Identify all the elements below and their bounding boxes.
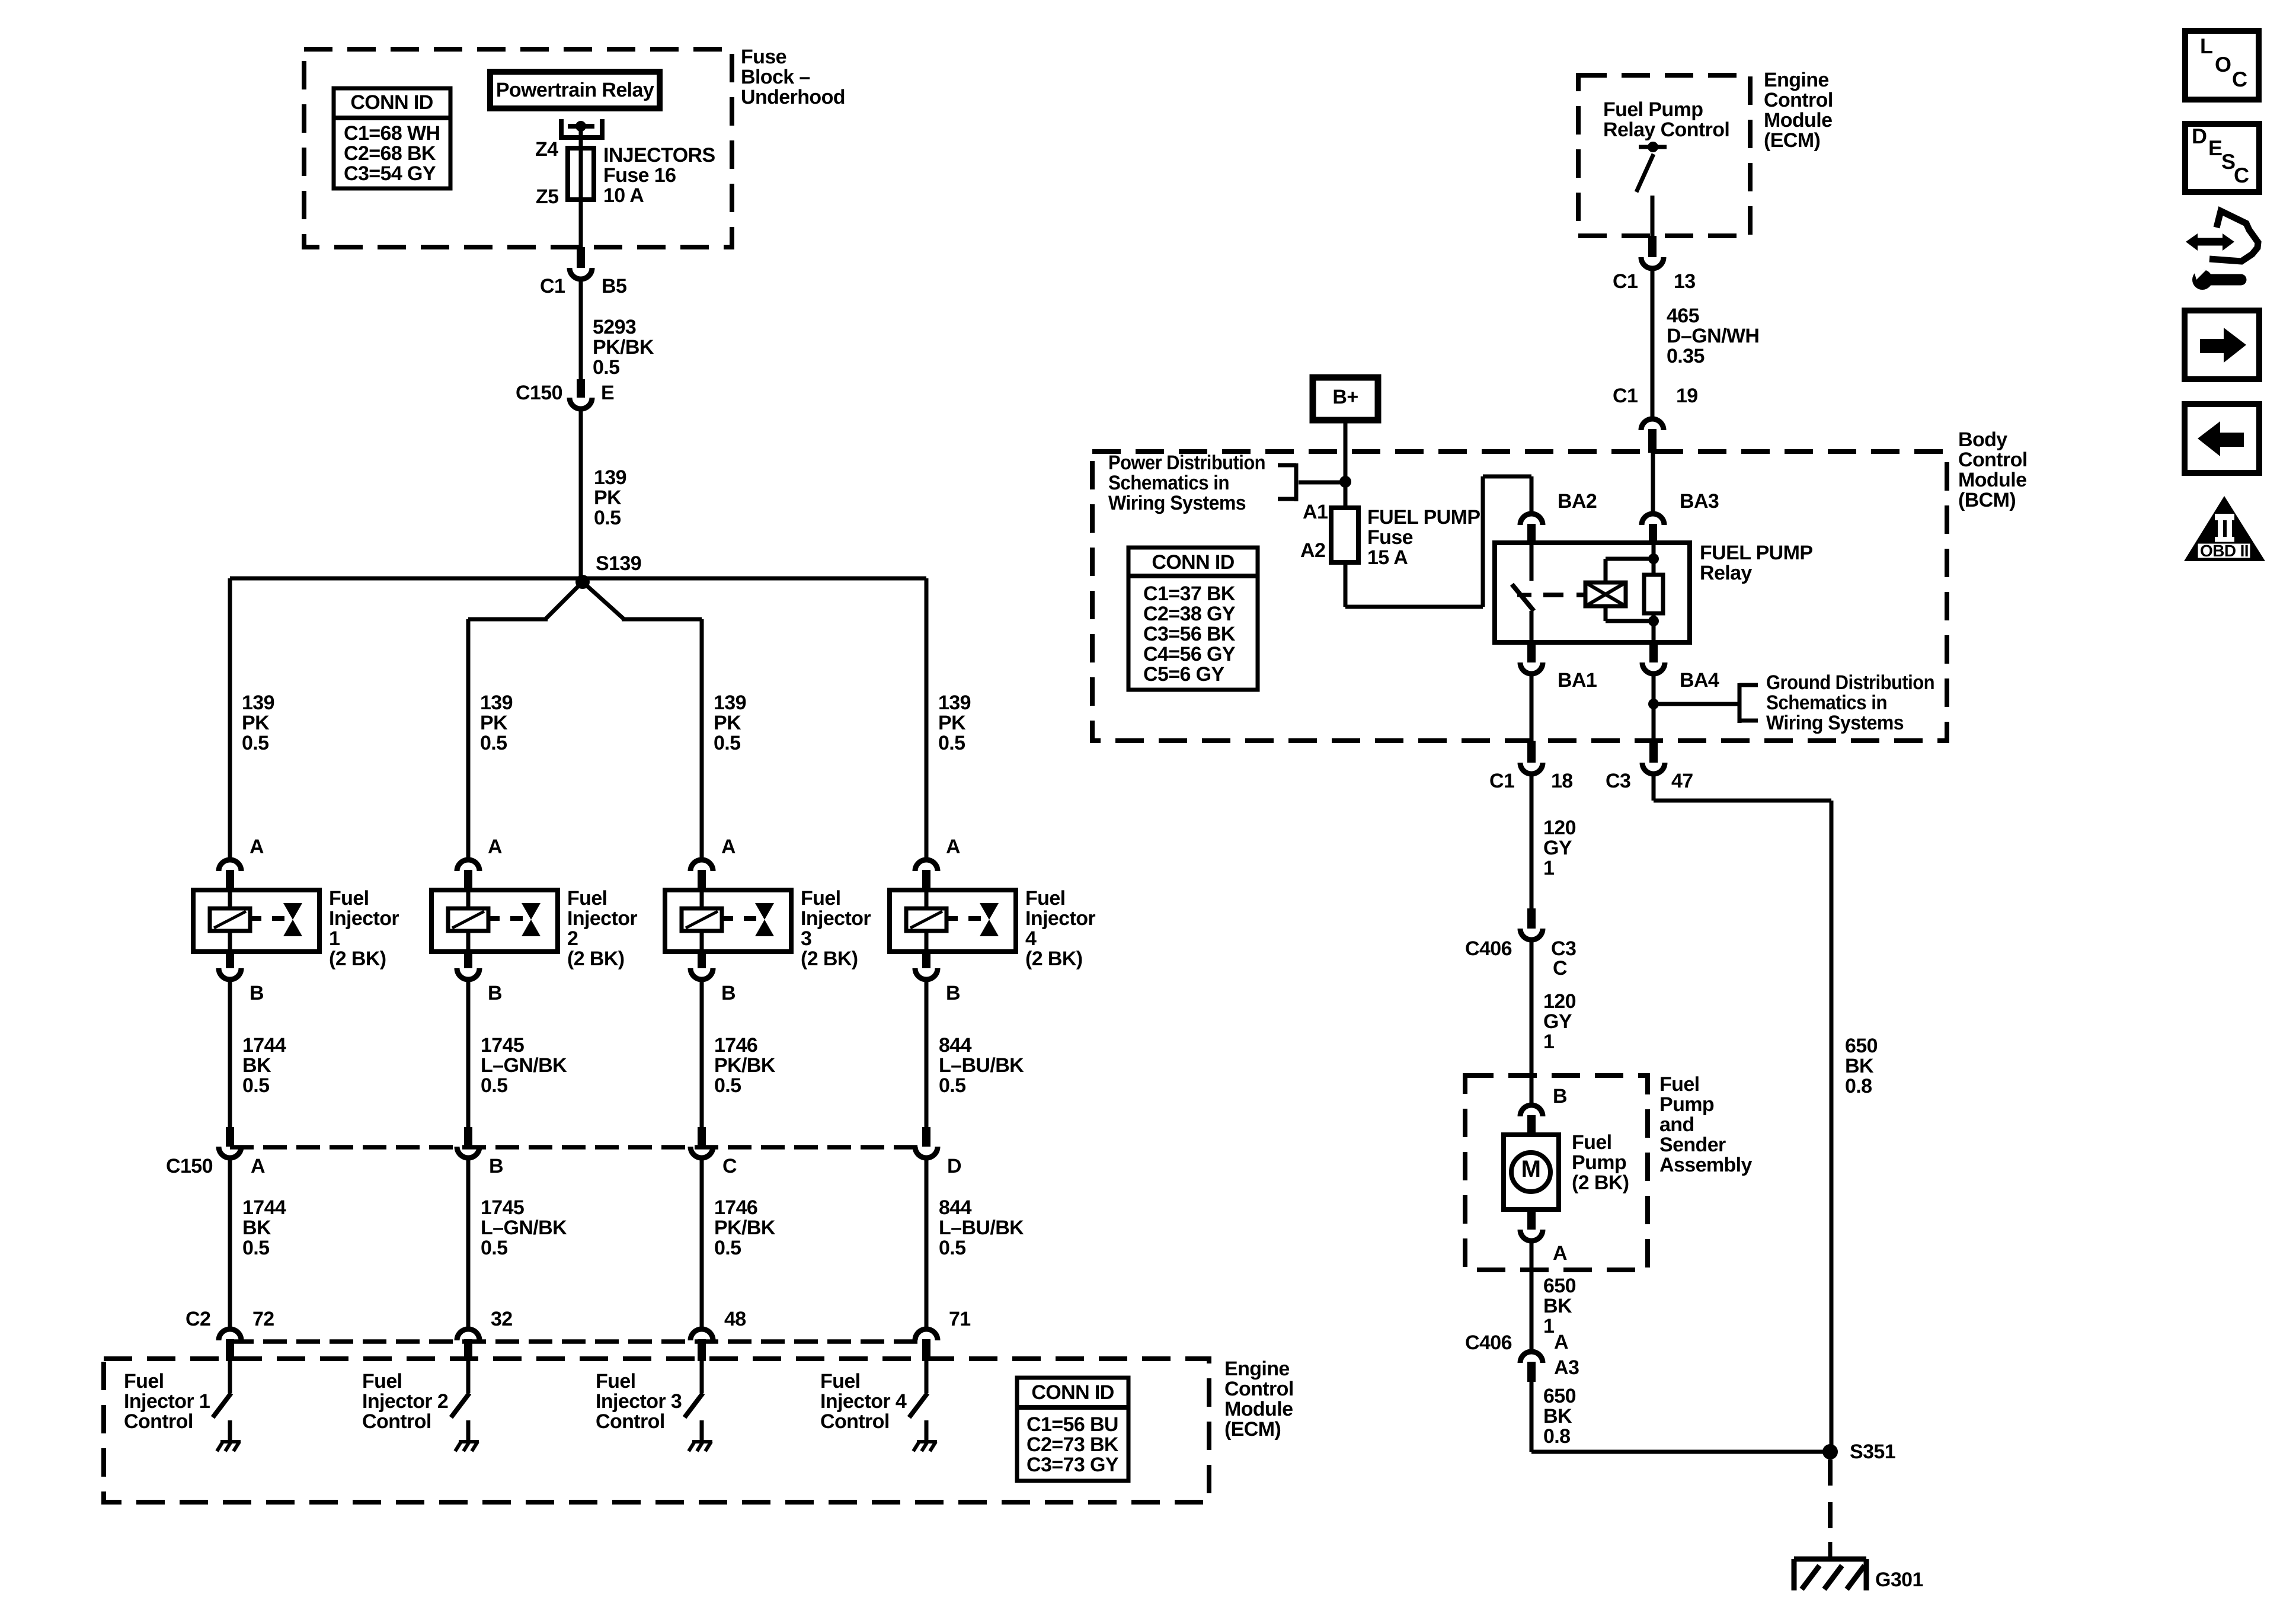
svg-text:Injector: Injector — [801, 907, 871, 930]
svg-text:C1=37 BK: C1=37 BK — [1143, 582, 1236, 605]
wire 139 PK feed injector 4 — [925, 578, 929, 859]
svg-text:C: C — [2234, 163, 2249, 187]
svg-text:0.8: 0.8 — [1543, 1425, 1570, 1448]
wire 1746 PK/BK upper — [700, 982, 704, 1128]
svg-text:A: A — [721, 836, 736, 858]
svg-text:Module: Module — [1224, 1398, 1293, 1420]
svg-text:Fuel: Fuel — [567, 887, 607, 910]
svg-text:BK: BK — [1543, 1405, 1572, 1427]
svg-text:PK: PK — [242, 712, 270, 734]
wire 139 PK feed injector 3 — [700, 619, 704, 859]
fuel pump motor — [1504, 1135, 1559, 1209]
fuse 16 INJECTORS 10A — [568, 148, 594, 200]
svg-text:C1: C1 — [540, 275, 565, 297]
CONN ID table (BCM) — [1128, 548, 1258, 690]
branch wire to injector 3 — [583, 582, 624, 619]
wire 1744 BK upper — [228, 982, 232, 1128]
svg-text:Fuel: Fuel — [820, 1370, 861, 1393]
svg-text:C2: C2 — [186, 1308, 210, 1330]
svg-text:L–BU/BK: L–BU/BK — [939, 1054, 1024, 1077]
connector C150 pin A — [226, 1127, 234, 1147]
svg-text:INJECTORS: INJECTORS — [603, 144, 715, 167]
svg-text:A: A — [1554, 1331, 1568, 1353]
svg-text:0.5: 0.5 — [481, 1074, 507, 1097]
connector C150 E — [577, 379, 585, 398]
svg-text:C1=68 WH: C1=68 WH — [344, 122, 440, 145]
B+ box — [1313, 377, 1378, 420]
svg-text:650: 650 — [1543, 1385, 1576, 1407]
ground G301 — [1794, 1557, 1866, 1562]
svg-text:0.5: 0.5 — [939, 1237, 965, 1259]
body control module (BCM) dashed box — [1092, 452, 1947, 741]
svg-text:(ECM): (ECM) — [1764, 129, 1820, 152]
wire BA1 down — [1530, 676, 1534, 742]
connector B (injector 1) — [226, 952, 234, 968]
ground (injector 1 driver) — [220, 1440, 241, 1443]
connector C2 dashed line — [230, 1339, 926, 1344]
svg-text:0.5: 0.5 — [242, 1074, 269, 1097]
svg-text:Module: Module — [1958, 469, 2026, 491]
svg-text:PK: PK — [594, 486, 622, 509]
svg-text:B: B — [250, 982, 264, 1004]
svg-text:A: A — [250, 836, 264, 858]
svg-text:Schematics in: Schematics in — [1108, 472, 1229, 494]
svg-text:E: E — [601, 382, 614, 404]
svg-text:0.35: 0.35 — [1667, 345, 1705, 367]
svg-text:Control: Control — [124, 1410, 193, 1433]
svg-text:CONN ID: CONN ID — [1031, 1381, 1114, 1404]
svg-text:Control: Control — [596, 1410, 665, 1433]
connector C150 pin B — [464, 1127, 472, 1147]
svg-text:(2 BK): (2 BK) — [1572, 1172, 1629, 1194]
svg-text:1745: 1745 — [481, 1034, 524, 1057]
ground (injector 2 driver) — [459, 1440, 479, 1443]
svg-text:Fuel: Fuel — [596, 1370, 636, 1393]
wire from relay to fuse — [579, 126, 583, 249]
svg-text:A2: A2 — [1300, 539, 1325, 562]
svg-text:Fuel: Fuel — [124, 1370, 164, 1393]
svg-text:Power Distribution: Power Distribution — [1108, 452, 1265, 474]
svg-text:0.5: 0.5 — [242, 732, 268, 754]
svg-text:Z5: Z5 — [536, 185, 558, 208]
svg-text:15 A: 15 A — [1367, 546, 1408, 569]
svg-text:A: A — [488, 836, 502, 858]
relay actuation dashes — [1543, 593, 1563, 597]
svg-text:D: D — [2192, 124, 2207, 148]
svg-text:Engine: Engine — [1764, 69, 1829, 91]
svg-text:A: A — [946, 836, 960, 858]
svg-text:C406: C406 — [1465, 937, 1512, 960]
svg-text:CONN ID: CONN ID — [350, 91, 433, 114]
svg-text:Injector 3: Injector 3 — [596, 1390, 682, 1413]
CONN ID table (fuse block) — [334, 88, 450, 188]
svg-text:1746: 1746 — [714, 1034, 757, 1057]
svg-text:E: E — [2208, 136, 2222, 160]
backward arrow icon — [2185, 404, 2259, 473]
svg-text:Pump: Pump — [1572, 1151, 1626, 1174]
svg-text:L–GN/BK: L–GN/BK — [481, 1054, 567, 1077]
svg-text:139: 139 — [938, 692, 971, 714]
svg-text:139: 139 — [242, 692, 274, 714]
relay resistor — [1644, 575, 1663, 613]
svg-text:Body: Body — [1958, 428, 2007, 451]
svg-text:18: 18 — [1551, 770, 1573, 792]
fuel pump fuse 15A — [1331, 508, 1358, 562]
svg-text:(2 BK): (2 BK) — [1025, 948, 1083, 970]
connector C1 18 — [1527, 741, 1536, 763]
svg-text:Schematics in: Schematics in — [1766, 692, 1887, 714]
fuel injector 4 — [890, 890, 1016, 952]
svg-text:C3=54 GY: C3=54 GY — [344, 162, 436, 185]
svg-text:0.5: 0.5 — [481, 1237, 507, 1259]
svg-text:48: 48 — [724, 1308, 746, 1330]
svg-text:Injector: Injector — [329, 907, 399, 930]
svg-text:Fuel: Fuel — [1572, 1131, 1612, 1154]
dashed wire to ground — [1828, 1459, 1833, 1542]
svg-text:Fuel: Fuel — [1025, 887, 1066, 910]
svg-text:0.5: 0.5 — [938, 732, 965, 754]
svg-text:0.5: 0.5 — [714, 1074, 741, 1097]
connector B (injector 2) — [464, 952, 472, 968]
svg-text:PK: PK — [938, 712, 966, 734]
svg-text:M: M — [1521, 1156, 1541, 1182]
svg-text:C1=56 BU: C1=56 BU — [1027, 1413, 1118, 1436]
svg-text:(2 BK): (2 BK) — [567, 948, 625, 970]
svg-text:Fuse: Fuse — [1367, 526, 1413, 549]
wire 120 GY lower — [1530, 942, 1534, 1103]
svg-text:PK/BK: PK/BK — [714, 1054, 776, 1077]
DESC icon — [2185, 124, 2259, 192]
wire 139 PK to splice — [579, 411, 583, 582]
fuel injector 2 — [431, 890, 558, 952]
svg-text:C150: C150 — [166, 1155, 213, 1177]
svg-text:(ECM): (ECM) — [1224, 1418, 1281, 1441]
connector B (injector 4) — [922, 952, 930, 968]
svg-text:BK: BK — [242, 1217, 271, 1239]
svg-text:Injector: Injector — [567, 907, 637, 930]
engine control module (ECM) dashed box bottom left — [104, 1359, 1209, 1502]
svg-text:120: 120 — [1543, 817, 1576, 839]
fuel injector 1 control driver — [228, 1361, 232, 1393]
svg-text:Wiring Systems: Wiring Systems — [1108, 492, 1246, 514]
svg-text:Control: Control — [362, 1410, 431, 1433]
svg-text:L–BU/BK: L–BU/BK — [939, 1217, 1024, 1239]
svg-text:C: C — [722, 1155, 737, 1177]
svg-text:BA1: BA1 — [1558, 669, 1597, 692]
wire 139 PK feed injector 1 — [228, 578, 232, 859]
OBD II icon — [2184, 496, 2265, 561]
wire 1744 BK lower — [228, 1160, 232, 1330]
svg-text:Control: Control — [1224, 1378, 1294, 1400]
wire 120 GY upper — [1530, 776, 1534, 910]
svg-text:Fuel Pump: Fuel Pump — [1603, 98, 1703, 121]
connector C1 B5 (fuse block output) — [577, 247, 585, 268]
svg-text:PK: PK — [714, 712, 741, 734]
svg-text:1: 1 — [1543, 1315, 1554, 1337]
svg-text:3: 3 — [801, 927, 811, 950]
connector BA4 — [1649, 642, 1658, 662]
svg-text:Control: Control — [820, 1410, 890, 1433]
connector B (injector 3) — [698, 952, 706, 968]
svg-text:Pump: Pump — [1659, 1093, 1714, 1116]
svg-text:L: L — [2200, 34, 2212, 58]
svg-text:0.5: 0.5 — [714, 1237, 741, 1259]
fuel pump relay box — [1495, 543, 1690, 642]
svg-text:2: 2 — [567, 927, 578, 950]
svg-text:C3: C3 — [1606, 770, 1630, 792]
svg-text:A: A — [1553, 1242, 1567, 1265]
relay contact switch — [1530, 543, 1534, 581]
svg-text:C: C — [1553, 957, 1567, 980]
ground (injector 3 driver) — [692, 1440, 712, 1443]
fuel injector 1 — [193, 890, 319, 952]
connector C1 13 — [1648, 236, 1657, 257]
svg-text:19: 19 — [1676, 385, 1698, 407]
fuel injector 2 control driver — [466, 1361, 471, 1393]
junction to ground distribution — [1648, 699, 1659, 709]
svg-text:Z4: Z4 — [535, 138, 558, 161]
svg-text:Injector: Injector — [1025, 907, 1095, 930]
svg-text:B: B — [488, 982, 502, 1004]
svg-text:GY: GY — [1543, 1010, 1572, 1033]
svg-text:O: O — [2215, 52, 2231, 76]
wire 1745 L–GN/BK upper — [466, 982, 471, 1128]
svg-text:139: 139 — [480, 692, 513, 714]
connector BA2 — [1520, 514, 1543, 525]
connector C406 C3 C — [1527, 908, 1536, 929]
svg-text:650: 650 — [1845, 1035, 1878, 1057]
svg-text:B+: B+ — [1332, 386, 1358, 408]
svg-text:D–GN/WH: D–GN/WH — [1667, 325, 1759, 347]
svg-text:S: S — [2221, 149, 2235, 174]
CONN ID table (ECM) — [1017, 1378, 1128, 1481]
svg-text:1: 1 — [1543, 857, 1554, 879]
svg-text:BA2: BA2 — [1558, 490, 1597, 513]
svg-text:139: 139 — [594, 466, 626, 489]
svg-text:C3=73 GY: C3=73 GY — [1027, 1454, 1119, 1476]
junction to power distribution — [1339, 476, 1351, 488]
svg-text:1745: 1745 — [481, 1196, 524, 1219]
svg-text:4: 4 — [1025, 927, 1037, 950]
svg-text:G301: G301 — [1875, 1569, 1923, 1591]
connector C150 pin C — [698, 1127, 706, 1147]
svg-text:OBD II: OBD II — [2200, 542, 2249, 560]
svg-text:Fuel: Fuel — [362, 1370, 402, 1393]
svg-text:Relay: Relay — [1700, 562, 1752, 584]
wire 1746 PK/BK lower — [700, 1160, 704, 1330]
svg-text:47: 47 — [1671, 770, 1693, 792]
wire 5293 PK/BK — [579, 281, 583, 379]
svg-text:Control: Control — [1958, 449, 2028, 471]
svg-text:(2 BK): (2 BK) — [329, 948, 386, 970]
svg-text:BA3: BA3 — [1680, 490, 1719, 513]
svg-text:C1: C1 — [1613, 385, 1638, 407]
fuel pump and sender assembly dashed box — [1465, 1076, 1648, 1270]
svg-text:Injector 4: Injector 4 — [820, 1390, 907, 1413]
relay coil — [1585, 582, 1626, 606]
svg-text:C406: C406 — [1465, 1331, 1512, 1354]
svg-text:1: 1 — [1543, 1030, 1554, 1053]
svg-text:FUEL PUMP: FUEL PUMP — [1367, 506, 1480, 529]
fuel injector 3 — [665, 890, 791, 952]
svg-text:C2=73 BK: C2=73 BK — [1027, 1433, 1119, 1456]
wire 844 L–BU/BK lower — [925, 1160, 929, 1330]
svg-text:D: D — [947, 1155, 961, 1177]
svg-text:C150: C150 — [516, 382, 562, 404]
svg-text:0.5: 0.5 — [480, 732, 507, 754]
svg-text:A3: A3 — [1554, 1356, 1579, 1379]
svg-text:Module: Module — [1764, 109, 1832, 132]
svg-text:32: 32 — [491, 1308, 513, 1330]
svg-text:GY: GY — [1543, 837, 1572, 859]
svg-text:Block –: Block – — [741, 66, 810, 88]
svg-text:A1: A1 — [1303, 501, 1328, 523]
svg-text:5293: 5293 — [593, 316, 636, 338]
splice S139 — [575, 575, 590, 589]
svg-text:844: 844 — [939, 1196, 972, 1219]
svg-text:0.5: 0.5 — [593, 356, 619, 379]
svg-text:PK: PK — [480, 712, 508, 734]
wire C1 19 to BA3 — [1651, 453, 1655, 513]
svg-text:Fuel: Fuel — [801, 887, 841, 910]
svg-text:B5: B5 — [602, 275, 626, 297]
svg-text:C5=6 GY: C5=6 GY — [1143, 663, 1225, 686]
svg-text:C2=68 BK: C2=68 BK — [344, 142, 436, 165]
fuel injector 3 control driver — [700, 1361, 704, 1393]
wire 844 L–BU/BK upper — [925, 982, 929, 1128]
svg-text:C1: C1 — [1613, 270, 1638, 293]
svg-text:C3=56 BK: C3=56 BK — [1143, 623, 1236, 645]
svg-text:Fuse 16: Fuse 16 — [603, 164, 676, 187]
svg-text:BK: BK — [1845, 1055, 1874, 1077]
svg-text:0.5: 0.5 — [714, 732, 740, 754]
svg-text:and: and — [1659, 1113, 1694, 1136]
svg-text:10 A: 10 A — [603, 184, 644, 207]
svg-text:C: C — [2232, 67, 2247, 91]
connector C150 pin D — [922, 1127, 930, 1147]
svg-text:0.8: 0.8 — [1845, 1075, 1872, 1097]
svg-text:B: B — [1553, 1085, 1567, 1108]
engine control module dashed box top right — [1578, 75, 1750, 236]
wire fuse to relay contact — [1344, 562, 1348, 607]
wire BA4 down — [1652, 676, 1656, 742]
ground (injector 4 driver) — [917, 1440, 937, 1443]
svg-text:B: B — [721, 982, 736, 1004]
bus wire from S139 — [230, 577, 926, 581]
wire B+ to fuse — [1344, 420, 1348, 510]
svg-text:71: 71 — [949, 1308, 971, 1330]
svg-text:139: 139 — [714, 692, 746, 714]
svg-text:Powertrain Relay: Powertrain Relay — [496, 79, 654, 101]
wire 1745 L–GN/BK lower — [466, 1160, 471, 1330]
powertrain relay contact symbol — [559, 119, 564, 137]
svg-text:0.5: 0.5 — [594, 507, 621, 529]
svg-text:B: B — [489, 1155, 503, 1177]
svg-text:72: 72 — [252, 1308, 274, 1330]
svg-text:Wiring Systems: Wiring Systems — [1766, 712, 1904, 734]
svg-text:S351: S351 — [1850, 1441, 1895, 1463]
svg-text:A: A — [251, 1155, 265, 1177]
Powertrain Relay label box — [490, 72, 660, 108]
svg-text:Fuel: Fuel — [329, 887, 369, 910]
connector BA1 — [1527, 642, 1536, 662]
svg-text:Assembly: Assembly — [1659, 1154, 1753, 1176]
svg-text:1746: 1746 — [714, 1196, 757, 1219]
svg-text:Control: Control — [1764, 89, 1833, 111]
svg-text:650: 650 — [1543, 1275, 1576, 1297]
LOC icon — [2185, 31, 2259, 100]
svg-text:Underhood: Underhood — [741, 86, 845, 108]
svg-text:L–GN/BK: L–GN/BK — [481, 1217, 567, 1239]
svg-text:Relay Control: Relay Control — [1603, 119, 1729, 141]
svg-text:PK/BK: PK/BK — [714, 1217, 776, 1239]
svg-text:BA4: BA4 — [1680, 669, 1719, 692]
svg-text:Injector 1: Injector 1 — [124, 1390, 210, 1413]
wire 139 PK feed injector 2 — [466, 619, 471, 859]
svg-text:PK/BK: PK/BK — [593, 336, 654, 359]
svg-text:B: B — [946, 982, 960, 1004]
svg-text:Sender: Sender — [1659, 1134, 1726, 1156]
svg-text:S139: S139 — [596, 552, 641, 575]
svg-text:Injector 2: Injector 2 — [362, 1390, 448, 1413]
connector C150 dashed line — [230, 1145, 926, 1150]
svg-text:BK: BK — [242, 1054, 271, 1077]
wire 465 D-GN/WH — [1651, 271, 1655, 417]
svg-text:844: 844 — [939, 1034, 972, 1057]
connector A (fuel pump) — [1527, 1209, 1536, 1230]
fuse block underhood dashed box — [304, 49, 732, 247]
forward arrow icon — [2185, 311, 2259, 379]
wire 650 BK 0.8 right branch — [1652, 776, 1656, 801]
svg-text:BK: BK — [1543, 1295, 1572, 1317]
wire 650 BK 0.8 to splice — [1530, 1382, 1534, 1452]
svg-text:C1: C1 — [1489, 770, 1514, 792]
connector C3 47 — [1649, 741, 1658, 763]
wiring harness wrench icon — [2209, 211, 2258, 261]
svg-text:C2=38 GY: C2=38 GY — [1143, 603, 1236, 625]
svg-text:(BCM): (BCM) — [1958, 489, 2016, 511]
fuel pump relay control switch — [1639, 145, 1667, 149]
connector BA3 — [1642, 514, 1664, 525]
svg-text:0.5: 0.5 — [242, 1237, 269, 1259]
svg-text:120: 120 — [1543, 990, 1576, 1013]
svg-text:0.5: 0.5 — [939, 1074, 965, 1097]
branch wire to injector 2 — [545, 582, 583, 619]
svg-text:C4=56 GY: C4=56 GY — [1143, 643, 1236, 665]
wire 650 BK 1 — [1530, 1243, 1534, 1350]
svg-text:Fuel: Fuel — [1659, 1073, 1700, 1096]
svg-text:1: 1 — [329, 927, 340, 950]
svg-text:Engine: Engine — [1224, 1358, 1290, 1380]
svg-text:1744: 1744 — [242, 1196, 286, 1219]
svg-text:Ground Distribution: Ground Distribution — [1766, 671, 1934, 694]
svg-text:(2 BK): (2 BK) — [801, 948, 858, 970]
splice S351 — [1822, 1444, 1838, 1459]
svg-text:1744: 1744 — [242, 1034, 286, 1057]
svg-text:CONN ID: CONN ID — [1152, 551, 1234, 574]
svg-text:FUEL PUMP: FUEL PUMP — [1700, 542, 1812, 564]
svg-text:13: 13 — [1674, 270, 1696, 293]
svg-text:Fuse: Fuse — [741, 46, 786, 68]
fuel injector 4 control driver — [925, 1361, 929, 1393]
svg-text:465: 465 — [1667, 305, 1699, 327]
